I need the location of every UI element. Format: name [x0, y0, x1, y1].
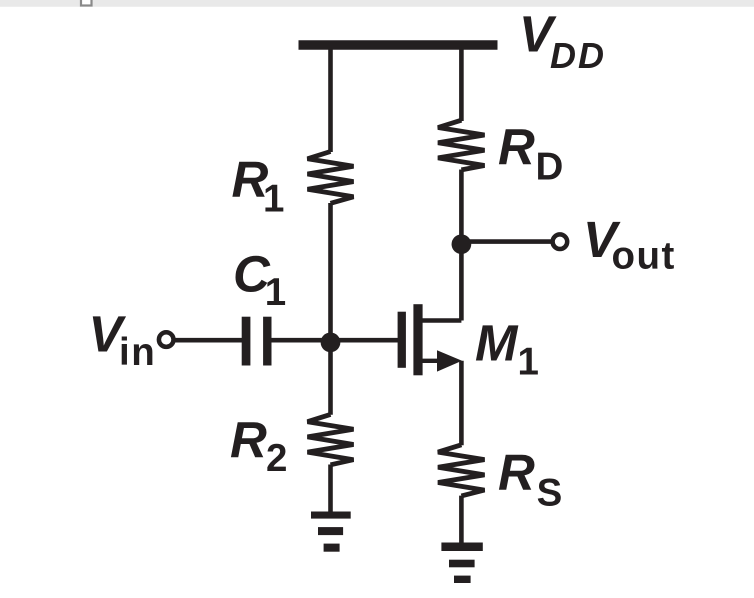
wire C1 to gate [270, 338, 398, 343]
transistor M1 source stub [421, 359, 442, 363]
transistor M1 drain stub [421, 318, 461, 322]
svg-text:1: 1 [265, 271, 288, 314]
svg-text:R: R [230, 412, 267, 469]
node gate junction dot [321, 333, 341, 353]
transistor M1 gate bar [398, 312, 406, 368]
svg-text:2: 2 [266, 437, 289, 480]
wire rail to RD [459, 49, 464, 121]
wire rail to R1 [328, 49, 333, 152]
wire R1 to R2 through gate node [328, 203, 333, 415]
transistor M1 channel bar [413, 304, 422, 375]
node drain junction dot [452, 234, 472, 254]
wire node to Vout terminal [461, 239, 551, 244]
svg-text:M: M [475, 315, 519, 372]
svg-text:DD: DD [550, 35, 606, 76]
svg-text:out: out [612, 235, 676, 278]
ground left [311, 512, 351, 552]
resistor RS [438, 445, 485, 496]
svg-text:1: 1 [518, 341, 541, 384]
Vin terminal circle [159, 332, 174, 347]
resistor RD [438, 120, 485, 170]
Vout terminal circle [553, 234, 568, 249]
wire source down to RS [459, 361, 464, 445]
browser chrome strip top [0, 0, 754, 7]
wire Vin terminal to C1 [175, 338, 242, 343]
resistor R1 [308, 152, 354, 204]
wire RS to ground [459, 496, 464, 544]
chrome widget box [81, 0, 92, 6]
svg-text:R: R [498, 444, 535, 501]
resistor R2 [308, 414, 354, 464]
svg-text:R: R [498, 119, 535, 176]
capacitor C1 left plate [242, 317, 251, 366]
wire RD to drain [459, 170, 464, 321]
transistor M1 source arrow [437, 350, 462, 371]
svg-text:in: in [119, 331, 156, 374]
svg-text:S: S [537, 472, 564, 515]
svg-text:1: 1 [263, 178, 286, 221]
capacitor C1 right plate [263, 317, 271, 366]
svg-text:D: D [536, 146, 565, 189]
VDD rail [299, 40, 498, 50]
ground right [441, 543, 482, 584]
wire R2 to ground [328, 465, 333, 514]
